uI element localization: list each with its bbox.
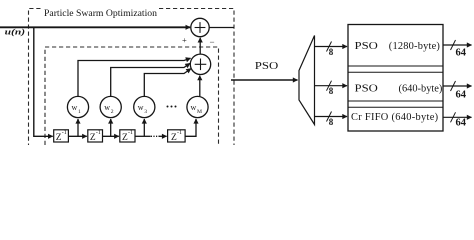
svg-text:1: 1 xyxy=(78,109,81,115)
svg-text:M: M xyxy=(197,109,202,115)
svg-text:PSO: PSO xyxy=(255,61,279,72)
svg-text:(640-byte): (640-byte) xyxy=(399,84,443,95)
bus wire 1 into memory box xyxy=(315,46,348,48)
wire box4 to wM tap xyxy=(185,119,196,136)
bus slash 3 xyxy=(327,112,332,122)
multiplier wM xyxy=(187,96,208,117)
memory box outline xyxy=(348,25,443,132)
svg-text:w: w xyxy=(138,103,144,112)
wire box2 to box3 xyxy=(103,135,119,137)
svg-text:64: 64 xyxy=(456,48,467,59)
tap wire up to w2 xyxy=(110,119,112,136)
svg-text:3: 3 xyxy=(144,109,147,115)
wire w3 output to summer xyxy=(144,69,191,97)
wire wM output up to summer xyxy=(199,76,201,97)
wire box3 toward ellipsis xyxy=(135,135,151,137)
svg-text:Particle Swarm Optimization: Particle Swarm Optimization xyxy=(44,8,157,19)
wire PSO arrow into splitter xyxy=(231,79,298,81)
bus splitter trapezoid xyxy=(299,36,315,125)
bus wire 3 into memory box xyxy=(315,116,348,118)
tap wire up to w3 xyxy=(143,119,145,136)
multiplier w1 xyxy=(67,96,88,117)
dotted ellipsis wire xyxy=(151,135,160,137)
wire S2 output up to S1 xyxy=(199,38,201,54)
delay block Z^-1 (3) xyxy=(120,130,135,143)
output wire 2 xyxy=(443,85,472,87)
bus wire 2 into memory box xyxy=(315,85,348,87)
svg-text:8: 8 xyxy=(329,47,334,57)
wire: branch down from u(n) to delay line xyxy=(34,27,53,136)
bus slash 1 xyxy=(327,42,332,52)
output slash 2 xyxy=(451,81,456,91)
svg-text:8: 8 xyxy=(329,117,334,127)
svg-text:PSO: PSO xyxy=(355,41,379,52)
svg-text:-1: -1 xyxy=(62,130,67,136)
delay block Z^-1 (4) xyxy=(168,130,186,143)
svg-text:Cr FIFO (640-byte): Cr FIFO (640-byte) xyxy=(351,112,438,123)
summing junction S2 (lower) xyxy=(190,54,210,74)
u(n) input line xyxy=(0,26,190,28)
summing junction S1 (top) xyxy=(191,18,209,36)
output wire 3 xyxy=(443,116,472,118)
separator row2/row3 xyxy=(348,100,443,102)
delay block Z^-1 (2) xyxy=(88,130,103,143)
svg-text:w: w xyxy=(191,103,197,112)
outer dashed box: Particle Swarm Optimization xyxy=(29,9,235,146)
svg-text:u(n): u(n) xyxy=(5,26,26,36)
svg-text:-1: -1 xyxy=(96,130,101,136)
output wire 1 xyxy=(443,44,472,46)
svg-text:(1280-byte): (1280-byte) xyxy=(389,41,440,52)
svg-text:w: w xyxy=(104,103,110,112)
svg-text:−: − xyxy=(210,37,215,47)
output slash 3 xyxy=(451,112,456,122)
svg-text:-1: -1 xyxy=(128,130,133,136)
separator row1/row2 xyxy=(348,65,443,67)
delay block Z^-1 (1) xyxy=(54,130,69,143)
ellipsis dots between w3 and wM xyxy=(167,106,177,108)
wire S1 output to dashed border xyxy=(209,27,234,29)
wire w2 output to summer xyxy=(111,63,190,96)
inner dashed box xyxy=(45,47,219,145)
svg-text:8: 8 xyxy=(329,86,334,96)
svg-text:64: 64 xyxy=(456,89,467,100)
svg-text:+: + xyxy=(182,35,187,45)
wire ellipsis to box4 xyxy=(159,135,167,137)
wire w1 output to summer xyxy=(78,58,191,96)
svg-text:64: 64 xyxy=(456,117,467,128)
wire box1 to box2 xyxy=(68,135,86,137)
svg-text:PSO: PSO xyxy=(355,84,379,95)
multiplier w3 xyxy=(134,96,155,117)
svg-text:w: w xyxy=(72,103,78,112)
multiplier w2 xyxy=(100,96,121,117)
bus slash 2 xyxy=(327,81,332,91)
svg-text:-1: -1 xyxy=(177,130,182,136)
tap wire up to w1 xyxy=(77,119,79,136)
output slash 1 xyxy=(451,40,456,50)
svg-text:2: 2 xyxy=(111,109,114,115)
